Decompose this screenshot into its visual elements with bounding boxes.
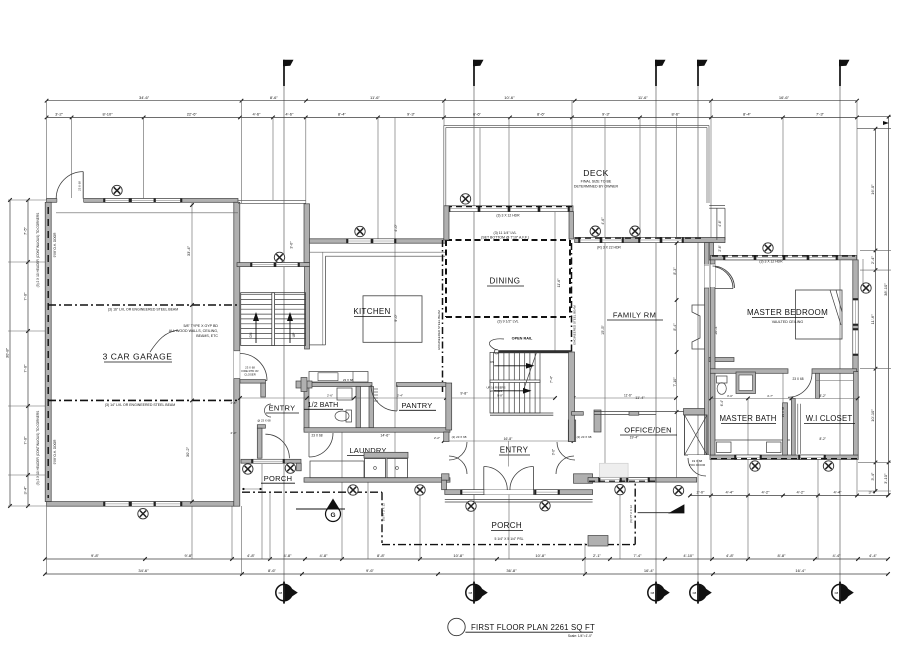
svg-text:8'-4": 8'-4" — [673, 323, 677, 331]
svg-text:8'-4": 8'-4" — [338, 112, 347, 117]
svg-text:4'-8": 4'-8" — [320, 553, 329, 558]
svg-text:9'-3": 9'-3" — [602, 112, 611, 117]
svg-text:4'-6": 4'-6" — [601, 217, 605, 225]
svg-text:PANTRY: PANTRY — [402, 401, 433, 410]
svg-text:VAULTED CEILING: VAULTED CEILING — [772, 320, 804, 324]
svg-text:16'-0": 16'-0" — [870, 184, 875, 195]
svg-text:4'-2": 4'-2" — [797, 490, 806, 495]
svg-text:4'-7": 4'-7" — [767, 394, 773, 398]
svg-text:4'-4": 4'-4" — [834, 490, 843, 495]
svg-text:33'-4": 33'-4" — [186, 245, 191, 256]
svg-text:DECK: DECK — [583, 168, 609, 178]
svg-text:16'-6": 16'-6" — [779, 95, 790, 100]
svg-text:(3) 11 1/4" LVL: (3) 11 1/4" LVL — [494, 231, 517, 235]
svg-text:PORCH: PORCH — [264, 474, 293, 483]
svg-text:4'-8": 4'-8" — [247, 553, 256, 558]
svg-text:9'-6": 9'-6" — [366, 568, 375, 573]
svg-text:ENTRY: ENTRY — [500, 446, 529, 455]
svg-text:4'-4": 4'-4" — [833, 553, 842, 558]
svg-text:2'-6": 2'-6" — [231, 401, 237, 405]
svg-text:MASTER BATH: MASTER BATH — [719, 414, 776, 423]
svg-text:(3) 14" LVL OR ENGINEERED STEE: (3) 14" LVL OR ENGINEERED STEEL BEAM — [105, 403, 175, 407]
svg-text:10'-6": 10'-6" — [504, 95, 515, 100]
svg-text:14'-6": 14'-6" — [380, 434, 390, 438]
svg-text:(6) PT 2 X 12: (6) PT 2 X 12 — [629, 505, 633, 523]
svg-text:2'-6": 2'-6" — [327, 394, 333, 398]
svg-text:ENGINEERED STEEL BEAM: ENGINEERED STEEL BEAM — [437, 310, 441, 350]
svg-text:11'-6": 11'-6" — [370, 95, 380, 100]
svg-text:OPEN RAIL: OPEN RAIL — [512, 337, 533, 341]
svg-text:2'-0": 2'-0" — [231, 431, 237, 435]
svg-text:OFFICE/DEN: OFFICE/DEN — [624, 426, 671, 435]
svg-text:3'-0": 3'-0" — [727, 394, 733, 398]
svg-text:3'-4": 3'-4" — [870, 472, 875, 481]
svg-text:2'-4": 2'-4" — [397, 394, 403, 398]
svg-text:9'-3": 9'-3" — [407, 112, 416, 117]
svg-text:G: G — [330, 512, 335, 519]
svg-text:8'-8": 8'-8" — [778, 553, 787, 558]
svg-text:2'-1": 2'-1" — [593, 553, 602, 558]
svg-text:W.I CLOSET: W.I CLOSET — [806, 414, 853, 423]
svg-text:10'-8": 10'-8" — [453, 553, 464, 558]
svg-text:19'-4": 19'-4" — [630, 436, 639, 440]
svg-text:W/ RAILS: W/ RAILS — [490, 389, 502, 393]
svg-text:8'-8": 8'-8" — [377, 553, 386, 558]
svg-text:4'-4": 4'-4" — [869, 553, 878, 558]
svg-text:9'X8' O.H. DOOR: 9'X8' O.H. DOOR — [53, 232, 57, 257]
svg-text:38'-10": 38'-10" — [883, 283, 888, 296]
svg-text:CLOSER: CLOSER — [244, 373, 256, 377]
svg-text:9'-8": 9'-8" — [460, 392, 468, 396]
svg-text:11'-6": 11'-6" — [557, 278, 561, 288]
svg-text:2'-6": 2'-6" — [718, 245, 722, 251]
svg-text:7'-4": 7'-4" — [550, 375, 554, 383]
svg-text:9'-0": 9'-0" — [394, 314, 398, 322]
svg-text:22'-6": 22'-6" — [187, 112, 198, 117]
svg-text:5/8" TYPE X GYP BD: 5/8" TYPE X GYP BD — [183, 324, 218, 328]
svg-text:(6) PT 2 X 12: (6) PT 2 X 12 — [382, 503, 386, 521]
svg-text:(3) 3 X 12 HDR: (3) 3 X 12 HDR — [496, 213, 520, 217]
svg-text:9'X8' O.H. DOOR: 9'X8' O.H. DOOR — [53, 439, 57, 464]
svg-text:7'-0": 7'-0" — [23, 292, 28, 301]
svg-text:(SET BOTTOM @ 7'10" A.F.F.): (SET BOTTOM @ 7'10" A.F.F.) — [481, 236, 529, 240]
svg-text:D8: D8 — [469, 591, 473, 595]
svg-text:23 X 68: 23 X 68 — [793, 377, 804, 381]
svg-text:3'-4": 3'-4" — [23, 486, 28, 495]
svg-text:6'-6": 6'-6" — [473, 112, 482, 117]
svg-text:DN: DN — [490, 360, 494, 364]
svg-text:(R) 3 X 22 HDR: (R) 3 X 22 HDR — [597, 246, 621, 250]
svg-text:10'-10": 10'-10" — [870, 409, 875, 422]
svg-text:6'-4": 6'-4" — [720, 400, 724, 406]
svg-text:4'-4": 4'-4" — [726, 490, 735, 495]
svg-text:16'-4": 16'-4" — [644, 568, 655, 573]
svg-text:23 X 68: 23 X 68 — [343, 378, 354, 382]
svg-text:5 1/4" X 5 1/4" PSL: 5 1/4" X 5 1/4" PSL — [495, 537, 524, 541]
svg-text:16'-4": 16'-4" — [795, 568, 806, 573]
svg-text:16'-8": 16'-8" — [504, 437, 513, 441]
svg-text:8'-2": 8'-2" — [820, 394, 826, 398]
svg-text:(2) 23 X 68: (2) 23 X 68 — [452, 435, 467, 439]
svg-text:9'-8": 9'-8" — [91, 553, 100, 558]
svg-text:ENGINEERED STEEL BEAM: ENGINEERED STEEL BEAM — [573, 305, 577, 345]
svg-text:4'-0": 4'-0" — [394, 224, 398, 232]
svg-text:D8: D8 — [279, 591, 283, 595]
svg-text:3'-0": 3'-0" — [552, 449, 556, 455]
svg-text:36'-8": 36'-8" — [506, 568, 517, 573]
svg-text:10'-8": 10'-8" — [535, 553, 546, 558]
svg-text:(3) 16" LVL OR ENGINEERED STEE: (3) 16" LVL OR ENGINEERED STEEL BEAM — [108, 308, 178, 312]
svg-text:4'-10": 4'-10" — [683, 553, 694, 558]
svg-text:2'-4": 2'-4" — [870, 256, 875, 265]
svg-text:7'-3": 7'-3" — [816, 112, 825, 117]
svg-text:ALL WOOD WALLS, CEILING,: ALL WOOD WALLS, CEILING, — [169, 329, 218, 333]
svg-text:30'-8": 30'-8" — [5, 347, 10, 358]
svg-text:8'-10": 8'-10" — [102, 112, 113, 117]
svg-text:(3) 9 1/2" LVL: (3) 9 1/2" LVL — [497, 320, 518, 324]
svg-text:8'-3": 8'-3" — [673, 267, 677, 275]
svg-text:15'-5": 15'-5" — [601, 325, 605, 335]
svg-text:4'-6": 4'-6" — [253, 112, 262, 117]
svg-text:11'-6": 11'-6" — [624, 394, 632, 398]
svg-text:(3) 3 X 12 HDR: (3) 3 X 12 HDR — [759, 259, 783, 263]
svg-text:4'-6": 4'-6" — [285, 112, 294, 117]
svg-text:FINAL SIZE TO BE: FINAL SIZE TO BE — [581, 180, 612, 184]
svg-text:23 X 68: 23 X 68 — [77, 181, 81, 191]
svg-text:34'-6": 34'-6" — [138, 568, 149, 573]
svg-text:11'-6": 11'-6" — [638, 95, 648, 100]
svg-text:23 X 68: 23 X 68 — [312, 434, 323, 438]
svg-text:UP: UP — [292, 332, 296, 337]
svg-text:POC DOOR: POC DOOR — [689, 463, 706, 467]
svg-text:DN: DN — [249, 332, 253, 337]
svg-text:2'-0": 2'-0" — [697, 490, 706, 495]
svg-text:1/2 BATH: 1/2 BATH — [308, 402, 339, 409]
svg-text:D8: D8 — [693, 591, 697, 595]
svg-text:8'-6": 8'-6" — [268, 568, 277, 573]
svg-text:BEAMS, ETC: BEAMS, ETC — [196, 334, 218, 338]
svg-text:PORCH: PORCH — [492, 521, 522, 530]
svg-text:@ 23 X 68: @ 23 X 68 — [257, 419, 271, 423]
svg-text:DETERMINED BY OWNER: DETERMINED BY OWNER — [574, 185, 619, 189]
svg-text:DINING: DINING — [490, 277, 521, 286]
svg-text:8'-6": 8'-6" — [270, 95, 279, 100]
svg-text:4'-8": 4'-8" — [284, 553, 293, 558]
svg-text:2'-2": 2'-2" — [434, 436, 440, 440]
svg-text:3'-0": 3'-0" — [290, 241, 294, 249]
svg-text:7'-0": 7'-0" — [23, 436, 28, 445]
svg-text:4'-6": 4'-6" — [718, 220, 722, 226]
svg-text:8'-6": 8'-6" — [537, 112, 546, 117]
svg-text:4'-8": 4'-8" — [726, 553, 735, 558]
svg-text:7'-10": 7'-10" — [673, 377, 677, 387]
svg-text:8'-2": 8'-2" — [820, 437, 826, 441]
svg-text:3'-10": 3'-10" — [883, 473, 888, 484]
svg-text:7'-4": 7'-4" — [634, 553, 643, 558]
svg-text:Scale: 1/4"=1'-0": Scale: 1/4"=1'-0" — [568, 634, 593, 638]
svg-text:3'-2": 3'-2" — [55, 112, 64, 117]
svg-text:34'-6": 34'-6" — [139, 95, 150, 100]
svg-text:4'-2": 4'-2" — [762, 490, 771, 495]
svg-text:9'-8": 9'-8" — [497, 394, 503, 398]
svg-text:3 CAR GARAGE: 3 CAR GARAGE — [103, 352, 173, 362]
svg-text:FIRST FLOOR PLAN 2261 SQ FT: FIRST FLOOR PLAN 2261 SQ FT — [471, 623, 595, 632]
svg-text:(3) 2 X 10 HEADER (CONTINUOUS): (3) 2 X 10 HEADER (CONTINUOUS) TO CORNER… — [36, 411, 40, 486]
svg-text:D8: D8 — [651, 591, 655, 595]
svg-text:8'-4": 8'-4" — [743, 112, 752, 117]
svg-text:ENTRY: ENTRY — [269, 404, 296, 413]
svg-text:D8: D8 — [835, 591, 839, 595]
svg-text:KITCHEN: KITCHEN — [353, 307, 390, 316]
svg-text:(3) 2 X 10 HEADER (CONTINUOUS): (3) 2 X 10 HEADER (CONTINUOUS) TO CORNER… — [36, 213, 40, 288]
svg-text:30'-2": 30'-2" — [185, 446, 190, 457]
svg-text:11'-6": 11'-6" — [870, 314, 875, 324]
svg-text:8'-6": 8'-6" — [672, 112, 681, 117]
svg-text:7'-0": 7'-0" — [23, 364, 28, 373]
svg-text:7'-5": 7'-5" — [23, 226, 28, 235]
svg-text:23 X 68: 23 X 68 — [781, 406, 785, 417]
svg-text:MASTER BEDROOM: MASTER BEDROOM — [747, 308, 828, 317]
svg-text:FAMILY RM: FAMILY RM — [613, 311, 656, 320]
svg-text:(2) 23 X 68: (2) 23 X 68 — [577, 435, 592, 439]
svg-text:3'-6": 3'-6" — [869, 490, 878, 495]
